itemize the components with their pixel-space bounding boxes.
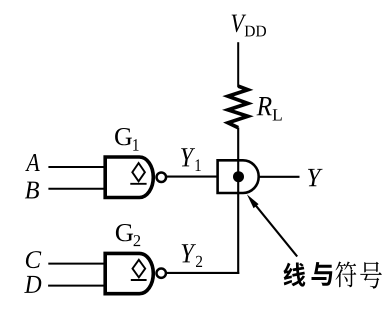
wire VDD to resistor <box>237 42 239 87</box>
label RL <box>257 97 272 115</box>
label Y1 <box>181 148 195 166</box>
gate G1 open-drain NAND <box>105 157 166 198</box>
wire wired-AND to Y <box>259 176 300 178</box>
wired-AND symbol (D shape) <box>218 160 259 193</box>
arrow head <box>247 194 259 208</box>
input wire A <box>48 166 107 168</box>
G2 diamond underline <box>131 279 147 281</box>
annotation text: hao (song serif) <box>360 262 382 289</box>
wire Y1 to wired-AND <box>166 176 219 178</box>
annotation arrow to wired-AND node <box>247 194 297 256</box>
label VDD <box>232 15 247 33</box>
label Y2 <box>182 244 196 262</box>
wire Y2 horizontal <box>167 272 239 274</box>
G2 NAND body outline <box>105 253 153 293</box>
G1 NAND body outline <box>105 157 153 198</box>
G2 output bubble <box>157 269 166 278</box>
gate G2 open-drain NAND <box>105 253 166 293</box>
label D <box>24 276 41 293</box>
G2 open-drain diamond <box>133 260 146 278</box>
label G2 <box>116 224 133 241</box>
label Y <box>308 169 323 186</box>
annotation text: yu (bold hei) <box>311 262 332 286</box>
label B <box>25 182 39 199</box>
label A <box>25 154 40 171</box>
label G1 <box>115 128 132 145</box>
arrow shaft <box>255 205 297 257</box>
G1 open-drain diamond <box>132 163 145 181</box>
label C <box>26 251 41 268</box>
annotation text: xian (bold hei) <box>283 262 305 286</box>
wire resistor to wired-AND node down to Y2 corner <box>237 128 239 274</box>
node dot (wired-AND junction) <box>233 171 244 182</box>
input wire D <box>48 285 107 287</box>
annotation text: fu (song serif) <box>335 261 356 287</box>
resistor RL <box>228 86 248 128</box>
input wire B <box>48 188 107 190</box>
G1 output bubble <box>157 173 167 183</box>
input wire C <box>48 263 107 265</box>
G1 diamond underline <box>130 183 146 185</box>
